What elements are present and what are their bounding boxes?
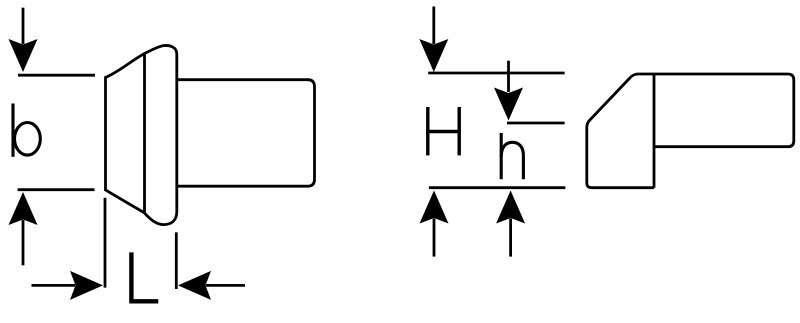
- dimension line h top: [507, 122, 565, 125]
- extension line left (L): [104, 198, 107, 288]
- dimension line bottom (H and h): [429, 186, 566, 189]
- dimension arrow up (bottom of b): [9, 192, 38, 265]
- tool bit inner edge: [653, 74, 656, 188]
- label L: [131, 252, 158, 301]
- label h: [501, 133, 523, 179]
- dimension arrow down (top of b): [9, 8, 38, 72]
- collar outline: [106, 45, 177, 224]
- shank of collar: [177, 80, 315, 187]
- dimension line H top: [428, 72, 564, 75]
- label H: [426, 107, 461, 155]
- dimension arrow left (L right): [178, 271, 245, 300]
- dimension arrow right (L left): [32, 271, 104, 300]
- dimension arrow down (top of H): [419, 7, 448, 73]
- extension line right (L): [175, 232, 178, 289]
- dimension line b bottom: [18, 188, 95, 191]
- tool bit outline: [587, 74, 794, 188]
- dimension arrow down (top of h): [494, 61, 523, 121]
- dimension line b top: [18, 74, 95, 77]
- dimension arrow up (bottom of H): [420, 191, 449, 257]
- dimension arrow up (bottom of h): [496, 191, 525, 257]
- collar inner edge: [143, 53, 146, 213]
- label b: [13, 104, 40, 157]
